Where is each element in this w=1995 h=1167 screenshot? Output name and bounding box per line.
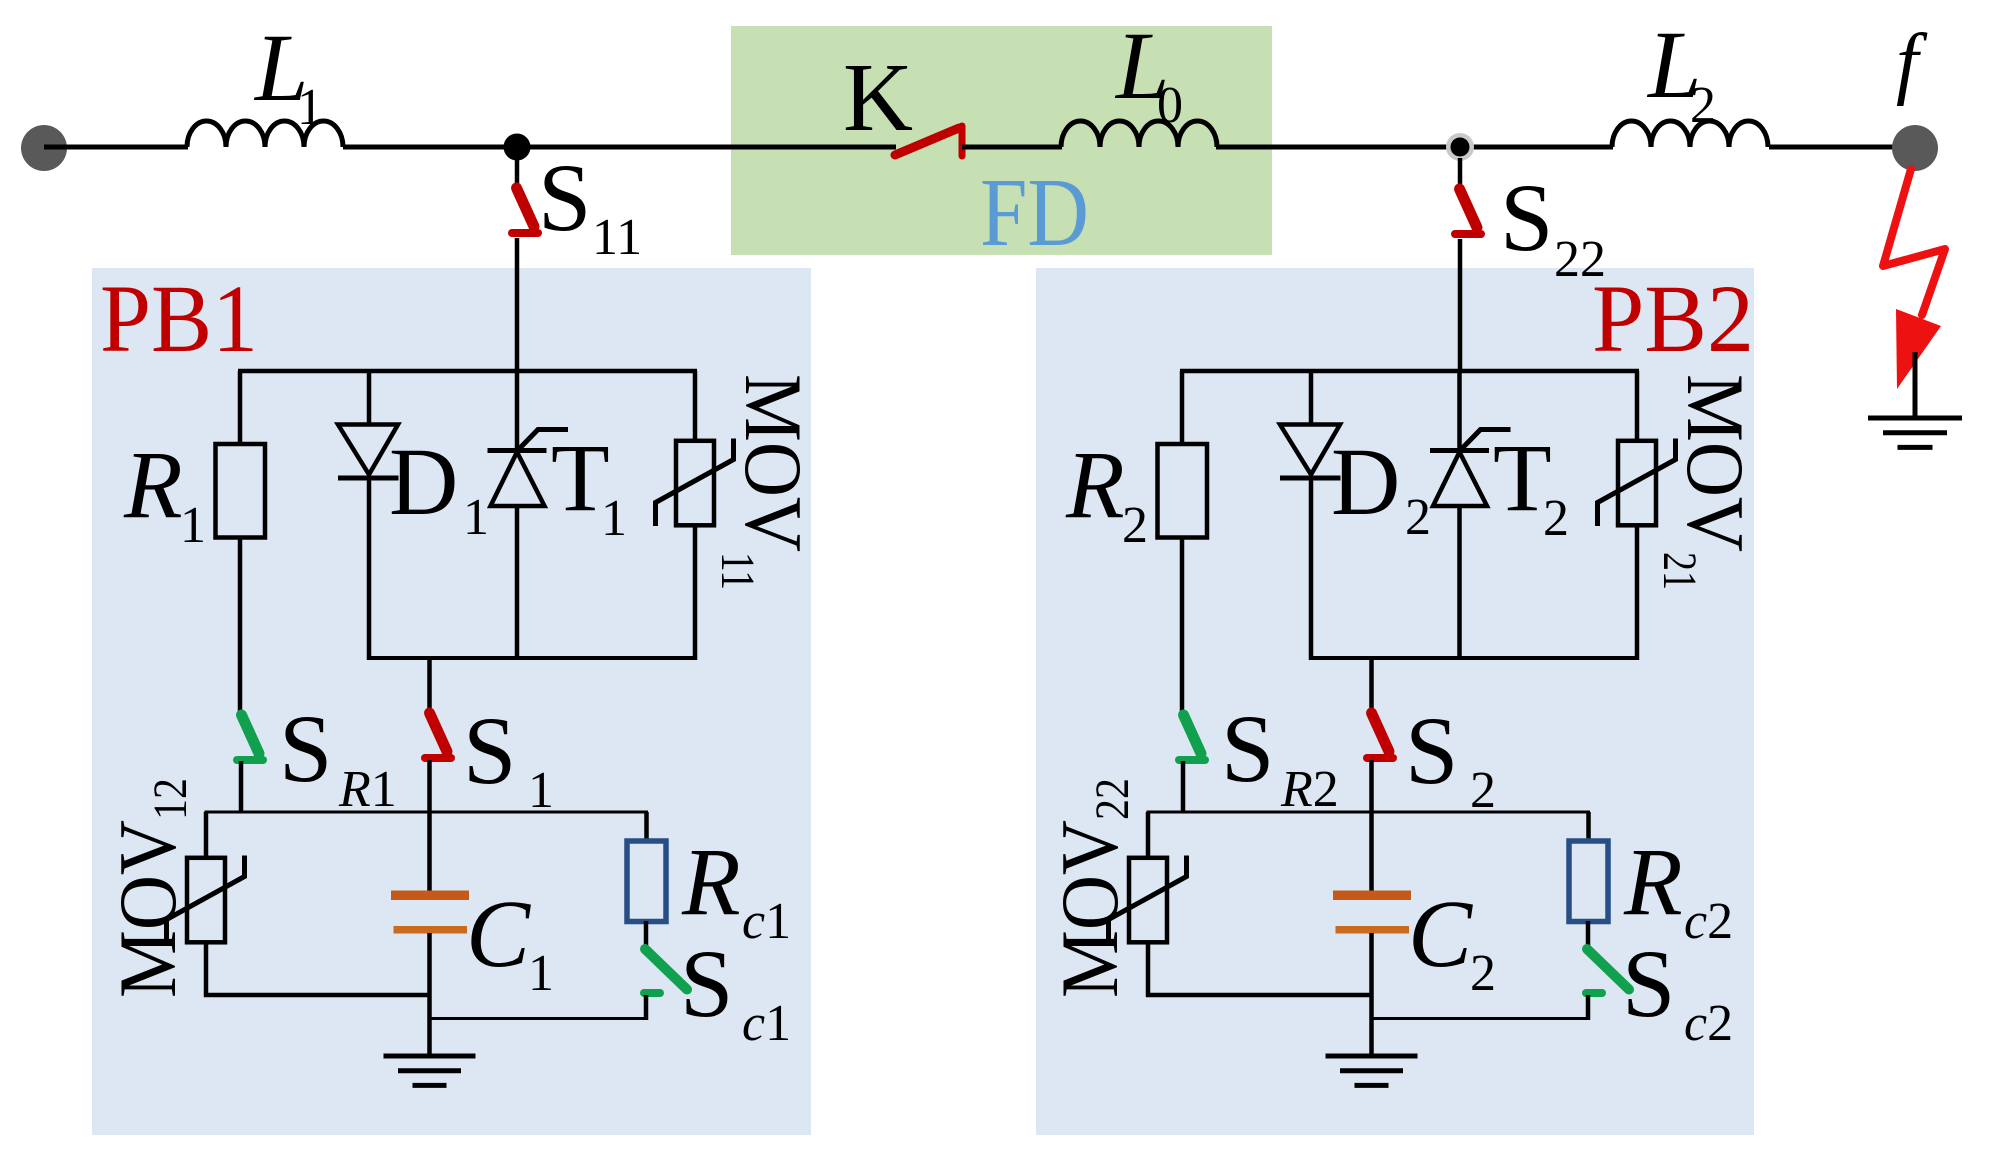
resistor R1 [216, 444, 266, 538]
wire MOV21 to bottom bus [1635, 524, 1640, 660]
wire bottom bus to S1 [427, 658, 432, 714]
thyristor T2 [1457, 371, 1462, 452]
switch S11 [515, 158, 520, 189]
svg-text:c1: c1 [742, 995, 791, 1052]
PB1 bottom bus [367, 656, 697, 660]
PB1 middle bus [205, 811, 649, 814]
wire R_c1 to S_c1 [644, 921, 649, 950]
svg-text:PB1: PB1 [100, 265, 258, 372]
wire left terminal to L1 [44, 145, 188, 150]
svg-text:1: 1 [528, 762, 554, 819]
svg-text:D: D [1331, 428, 1400, 535]
svg-text:R2: R2 [1280, 761, 1339, 818]
ground PB1 [384, 1054, 476, 1059]
wire MOV11 to bottom bus [693, 524, 698, 660]
svg-text:1: 1 [463, 489, 489, 546]
wire top bus to R2 [1180, 371, 1185, 446]
wire S_R2 to middle bus [1181, 761, 1186, 812]
svg-text:R: R [1065, 431, 1125, 538]
varistor MOV21 [1618, 441, 1656, 526]
wire top bus to MOV21 [1635, 371, 1640, 442]
PB1 top bus [238, 369, 697, 374]
switch S_R1 [242, 715, 260, 754]
svg-text:PB2: PB2 [1592, 265, 1754, 372]
svg-text:2: 2 [1470, 762, 1496, 819]
svg-text:C: C [1408, 880, 1473, 987]
inductor L0 [1061, 121, 1217, 147]
svg-text:S: S [1221, 695, 1274, 802]
node A junction to S11 [504, 134, 531, 161]
svg-text:MOV: MOV [1044, 820, 1135, 998]
wire D1 to bottom bus [367, 478, 372, 660]
svg-text:1: 1 [528, 945, 554, 1002]
PB1 lower right bus [430, 1017, 649, 1020]
wire D2 to bottom bus [1309, 478, 1314, 660]
switch S22 [1458, 158, 1463, 190]
wire top bus to MOV11 [693, 371, 698, 442]
PB2 lower left bus [1146, 993, 1372, 998]
svg-text:S: S [279, 695, 332, 802]
ground PB2 [1326, 1054, 1418, 1059]
wire top bus to D1 [367, 371, 372, 426]
svg-text:11: 11 [592, 209, 642, 266]
wire S_c1 to lower bus [644, 995, 649, 1020]
switch S_R2 [1184, 715, 1202, 754]
wire R2 to S_R2 [1180, 538, 1185, 717]
svg-text:MOV: MOV [102, 820, 193, 998]
wire L2 to terminal f [1769, 145, 1893, 150]
FD zone box [731, 26, 1272, 255]
switch S2 [1372, 713, 1390, 752]
svg-text:S: S [1500, 164, 1553, 271]
svg-text:2: 2 [1690, 77, 1716, 134]
wire K to L0 [962, 145, 1062, 150]
PB2 top bus [1180, 369, 1639, 374]
wire middle bus to R{c2} [1586, 812, 1591, 843]
wire middle bus to R{c1} [644, 812, 649, 843]
svg-text:MOV: MOV [728, 374, 819, 552]
varistor MOV12 [204, 812, 209, 859]
svg-text:S: S [680, 930, 733, 1037]
svg-text:12: 12 [144, 778, 197, 820]
svg-text:K: K [843, 44, 913, 151]
inductor L1 [187, 121, 343, 147]
resistor R_c2 [1569, 841, 1608, 922]
PB2 lower right bus [1372, 1017, 1591, 1020]
wire S_c2 to lower bus [1586, 995, 1591, 1020]
svg-text:11: 11 [711, 552, 764, 590]
svg-text:c2: c2 [1684, 893, 1733, 950]
svg-text:S: S [538, 144, 591, 251]
svg-text:C: C [466, 880, 531, 987]
svg-text:2: 2 [1543, 490, 1569, 547]
svg-text:0: 0 [1157, 77, 1183, 134]
wire R_c2 to S_c2 [1586, 921, 1591, 950]
switch S_c2 [1587, 949, 1629, 990]
svg-text:MOV: MOV [1670, 374, 1761, 552]
svg-text:c2: c2 [1684, 995, 1733, 1052]
wire L1 to breaker K [343, 145, 896, 150]
varistor MOV22 [1146, 812, 1151, 859]
svg-text:S: S [1405, 697, 1458, 804]
wire bottom bus to S2 [1369, 658, 1374, 714]
svg-text:2: 2 [1405, 489, 1431, 546]
svg-text:1: 1 [180, 497, 206, 554]
svg-text:21: 21 [1653, 552, 1706, 590]
capacitor C2 [1333, 891, 1411, 901]
wire MOV22 to lower bus [1146, 941, 1151, 997]
PB2 bottom bus [1309, 656, 1639, 660]
PB1 enclosure [92, 268, 811, 1135]
wire S_R1 to middle bus [239, 761, 244, 812]
fault lightning bolt [1883, 169, 1945, 315]
terminal node left [21, 125, 67, 171]
capacitor C1 [391, 891, 469, 901]
svg-text:2: 2 [1470, 945, 1496, 1002]
wire S1 to capacitor C1 [427, 760, 432, 891]
svg-text:c1: c1 [742, 893, 791, 950]
svg-text:1: 1 [601, 490, 627, 547]
svg-text:22: 22 [1086, 778, 1139, 820]
diode D2 [1280, 425, 1340, 475]
wire C2 to ground [1369, 933, 1374, 1056]
inductor L2 [1612, 121, 1768, 147]
svg-text:D: D [389, 428, 458, 535]
svg-text:22: 22 [1554, 231, 1606, 288]
svg-text:FD: FD [980, 159, 1089, 267]
wire S2 to capacitor C2 [1369, 760, 1374, 891]
wire top bus to D2 [1309, 371, 1314, 426]
wire R1 to S_R1 [238, 538, 243, 717]
thyristor T1 [515, 371, 520, 452]
wire MOV12 to lower bus [204, 941, 209, 997]
svg-text:R: R [681, 828, 741, 935]
wire L0 to L2 [1216, 145, 1613, 150]
svg-text:S: S [1622, 930, 1675, 1037]
switch S1 [430, 713, 448, 752]
switch S_c1 [645, 949, 687, 990]
node B junction to S22 [1446, 133, 1474, 161]
wire S11 to PB1 top bus [515, 238, 520, 373]
terminal f [1892, 125, 1938, 171]
PB2 middle bus [1147, 811, 1591, 814]
resistor R2 [1158, 444, 1208, 538]
PB1 lower left bus [204, 993, 430, 998]
svg-text:R: R [123, 431, 183, 538]
svg-text:2: 2 [1122, 497, 1148, 554]
svg-text:S: S [463, 697, 516, 804]
svg-text:R: R [1623, 828, 1683, 935]
PB2 enclosure [1036, 268, 1754, 1135]
wire T1 to bottom bus [515, 506, 520, 660]
wire S22 to PB2 top bus [1458, 239, 1463, 373]
svg-text:1: 1 [297, 79, 323, 136]
wire C1 to ground [427, 933, 432, 1056]
wire top bus to R1 [238, 371, 243, 446]
svg-text:R1: R1 [338, 761, 397, 818]
ground at fault [1913, 352, 1918, 418]
varistor MOV11 [676, 441, 714, 526]
breaker K [895, 128, 959, 155]
wire T2 to bottom bus [1457, 506, 1462, 660]
resistor R_c1 [627, 841, 666, 922]
diode D1 [338, 425, 398, 475]
